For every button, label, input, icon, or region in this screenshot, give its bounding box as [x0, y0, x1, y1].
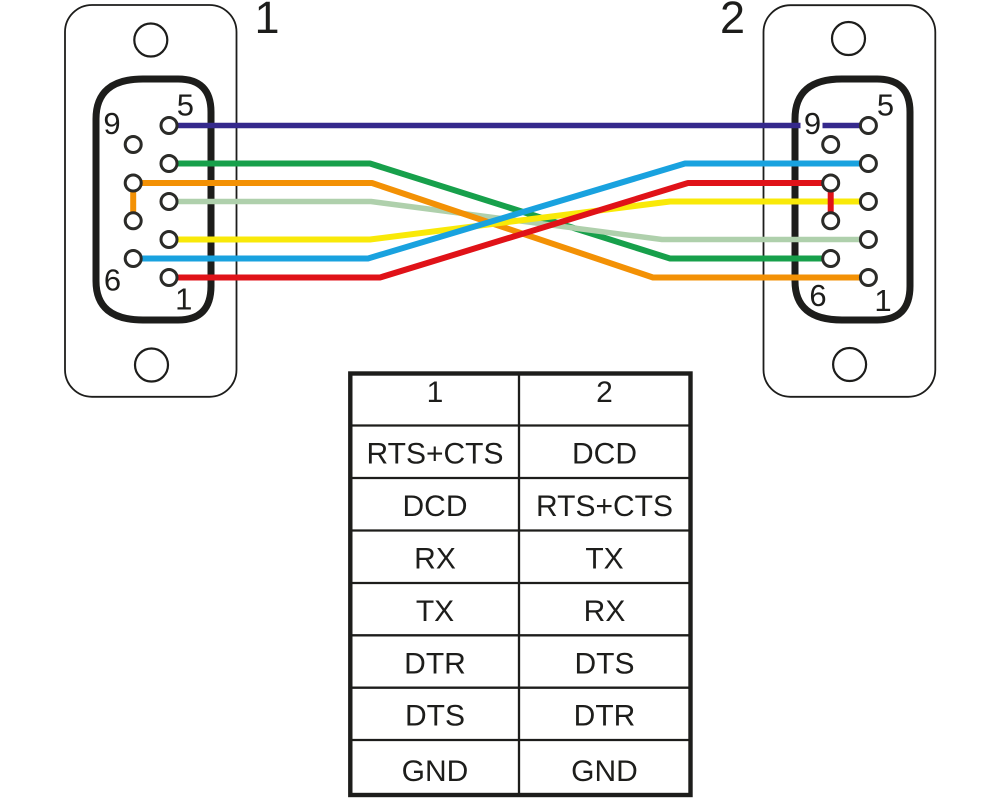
connector 2 pin 8 — [823, 175, 839, 191]
svg-text:2: 2 — [720, 0, 745, 43]
svg-text:TX: TX — [585, 543, 623, 576]
connector 1 top screw hole — [134, 24, 167, 57]
connector 2 bottom screw hole — [833, 348, 866, 381]
table row line 4 — [352, 582, 688, 584]
connector 1 pin 3 — [161, 194, 177, 210]
svg-text:GND: GND — [571, 755, 638, 788]
svg-text:DCD: DCD — [572, 438, 637, 471]
connector 2 pin 3 — [860, 194, 876, 210]
svg-text:1: 1 — [254, 0, 279, 43]
connector 1 bottom screw hole — [135, 349, 168, 382]
connector 1 pin 9 — [125, 137, 141, 153]
table row line 1 — [352, 424, 688, 426]
connector 2 pin 9 — [823, 137, 839, 153]
svg-text:RTS+CTS: RTS+CTS — [536, 490, 673, 523]
connector 2 pin 1 — [860, 270, 876, 286]
svg-text:1: 1 — [427, 376, 444, 409]
table row line 7 — [352, 739, 688, 741]
svg-text:RX: RX — [414, 543, 456, 576]
svg-text:DCD: DCD — [403, 490, 468, 523]
svg-text:RX: RX — [584, 595, 626, 628]
wire RX pin2-to-pin3 (yellow) — [169, 202, 868, 240]
svg-text:TX: TX — [416, 595, 454, 628]
svg-text:9: 9 — [804, 106, 821, 141]
svg-text:6: 6 — [809, 278, 826, 313]
connector 1 pin 8 — [125, 175, 141, 191]
svg-text:5: 5 — [877, 87, 894, 122]
svg-text:9: 9 — [103, 106, 120, 141]
svg-text:2: 2 — [596, 376, 613, 409]
table column divider — [518, 374, 520, 796]
connector 2 shell plate — [764, 5, 936, 397]
connector 2 pin 5 — [860, 118, 876, 134]
svg-text:5: 5 — [177, 87, 194, 122]
svg-text:6: 6 — [104, 263, 121, 298]
signal table outer border — [350, 374, 690, 796]
connector 2 pin 4 — [860, 156, 876, 172]
connector 2 pin 2 — [860, 232, 876, 248]
wire DCD pin1-to-pins7+8 (red) — [169, 183, 831, 278]
connector 1 pin 5 — [161, 118, 177, 134]
svg-text:RTS+CTS: RTS+CTS — [367, 438, 504, 471]
connector 2 D-sub shield outline — [795, 79, 910, 320]
svg-text:DTS: DTS — [575, 647, 635, 680]
wire RTS+CTS pins7+8-to-pin1 (orange) — [133, 183, 868, 278]
connector 1 shell plate — [65, 5, 237, 397]
svg-text:DTR: DTR — [404, 647, 466, 680]
jumper connector2 pin7-pin8 (red) — [828, 183, 834, 221]
connector 2 pin 7 — [823, 213, 839, 229]
connector 1 pin 1 — [161, 270, 177, 286]
svg-text:1: 1 — [874, 283, 891, 318]
connector 2 top screw hole — [832, 22, 865, 55]
connector 2 pin 6 — [823, 251, 839, 267]
wire DSR pin6-to-pin4 (cyan) — [133, 164, 868, 259]
svg-text:DTR: DTR — [574, 700, 636, 733]
wire TX pin3-to-pin2 (pale green) — [169, 202, 868, 240]
table row line 2 — [352, 477, 688, 479]
svg-text:DTS: DTS — [405, 700, 465, 733]
table row line 5 — [352, 634, 688, 636]
connector 1 pin 6 — [125, 251, 141, 267]
table row line 6 — [352, 687, 688, 689]
wire GND pin5-to-pin5 (navy) — [169, 123, 868, 129]
connector 1 pin 7 — [125, 213, 141, 229]
jumper connector1 pin7-pin8 (orange) — [130, 183, 136, 221]
knockout behind connector 2 label 9 — [801, 109, 823, 135]
connector 1 D-sub shield outline — [96, 79, 211, 320]
svg-text:1: 1 — [175, 282, 192, 317]
table row line 3 — [352, 529, 688, 531]
wire DTR pin4-to-pin6 (green) — [169, 164, 831, 259]
svg-text:GND: GND — [402, 755, 469, 788]
connector 1 pin 4 — [161, 156, 177, 172]
connector 1 pin 2 — [161, 232, 177, 248]
